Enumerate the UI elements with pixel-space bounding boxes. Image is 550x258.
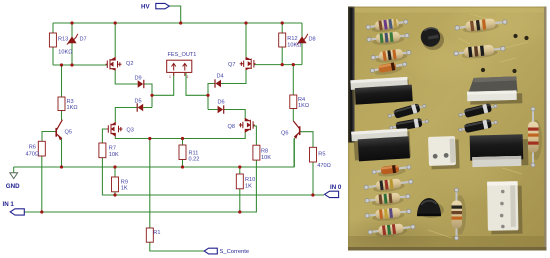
photo black diode 1	[387, 101, 427, 120]
svg-text:470Ω: 470Ω	[317, 163, 331, 169]
svg-text:GND: GND	[6, 183, 20, 190]
svg-text:0.22: 0.22	[189, 157, 200, 163]
transistor Q6	[293, 121, 299, 138]
board scratches	[428, 14, 528, 238]
photo resistor mid2	[453, 43, 505, 60]
svg-text:R9: R9	[121, 179, 128, 185]
photo TO220 2	[351, 128, 411, 161]
net flag IN 1	[3, 201, 25, 215]
wire left gate rail	[53, 64, 107, 66]
wire R6 to IN1	[41, 156, 43, 212]
wire D6 to Q8	[208, 110, 245, 119]
wire R1 column	[149, 139, 151, 229]
junction R3 top	[60, 63, 63, 66]
wire GND rail	[14, 139, 294, 168]
junction R6 bottom IN1	[40, 210, 43, 213]
wire R12 branch	[281, 23, 283, 65]
junction D7 anode	[70, 63, 73, 66]
resistor R13	[49, 33, 56, 47]
svg-text:Q6: Q6	[281, 130, 288, 136]
svg-text:R1: R1	[153, 230, 160, 236]
svg-text:FES_OUT1: FES_OUT1	[168, 52, 197, 58]
photo black box right 1	[467, 76, 523, 104]
photo black diode 2	[389, 117, 429, 132]
wire D5 to Q3	[115, 108, 137, 123]
svg-text:10KΩ: 10KΩ	[58, 50, 72, 56]
junction R12 bottom	[281, 63, 284, 66]
junction HV bus	[179, 21, 182, 24]
photo resistor row7	[367, 222, 415, 239]
wire Q7 source to D4	[221, 70, 246, 84]
svg-text:Q7: Q7	[228, 62, 235, 68]
photo white relay mid	[428, 136, 460, 170]
photo white connector bottom	[487, 181, 522, 234]
photo glass diode 1	[370, 60, 408, 77]
wire GND stub	[13, 167, 15, 173]
svg-text:IN 1: IN 1	[3, 201, 15, 208]
junction D9-D5 node	[150, 94, 153, 97]
resistor R8	[253, 145, 260, 160]
wire Q2 source to D9	[115, 71, 137, 85]
photo TO92 disc 2	[417, 198, 444, 218]
wire Q6 emitter	[293, 138, 295, 167]
svg-text:Q3: Q3	[126, 128, 133, 134]
wire D9 to center node	[144, 84, 152, 108]
svg-text:R8: R8	[261, 148, 268, 154]
svg-text:R10: R10	[245, 177, 255, 183]
photo black box right 2	[470, 134, 529, 167]
resistor R1	[146, 228, 153, 242]
svg-text:D7: D7	[80, 37, 87, 43]
photo black diode 3	[458, 101, 498, 119]
photo black diode 4	[458, 118, 498, 135]
resistor R11	[179, 145, 186, 160]
photo edge shading	[348, 7, 547, 251]
resistor R10	[236, 174, 243, 189]
junction R10 top GND	[238, 165, 241, 168]
diode D4	[216, 80, 222, 87]
svg-text:Q8: Q8	[228, 124, 235, 130]
photo resistor row3	[370, 47, 411, 64]
wire left branch R13	[52, 23, 54, 65]
svg-text:HV: HV	[141, 4, 150, 11]
svg-text:10K: 10K	[109, 152, 119, 158]
net flag S_Corrente	[204, 248, 249, 255]
photo board holes	[481, 34, 529, 73]
junction R5 bottom IN0	[311, 193, 314, 196]
junction R9 bottom IN0	[113, 193, 116, 196]
wire HV flag drop	[169, 6, 181, 23]
resistor R6	[38, 141, 45, 156]
svg-text:S_Corrente: S_Corrente	[220, 249, 250, 255]
heatsink edge strip left	[348, 7, 355, 143]
resistor R4	[290, 95, 297, 109]
transistor Q8	[239, 118, 255, 133]
zener diode D8	[297, 36, 306, 43]
junction R9 top GND	[113, 165, 116, 168]
svg-text:R13: R13	[58, 37, 68, 43]
wire FES pin1	[152, 73, 174, 95]
wire D8 branch	[301, 23, 303, 65]
wire Q5 base to R6	[42, 132, 56, 142]
wire right gate rail	[254, 64, 303, 66]
junction D4-D6 node	[206, 94, 209, 97]
photo resistor row4	[363, 177, 413, 195]
photo TO92 disc 1	[421, 27, 444, 50]
wire R9 leads	[114, 167, 116, 195]
junction D7 top	[70, 21, 73, 24]
wire Q2 drain	[114, 23, 116, 57]
wire R5 bottom	[312, 162, 314, 195]
photo resistor row5	[365, 191, 411, 207]
photo resistor mid1	[454, 17, 507, 35]
svg-text:R12: R12	[287, 36, 297, 42]
junction Q7 drain bus	[244, 21, 247, 24]
photo resistor row2	[367, 31, 410, 47]
svg-text:2: 2	[187, 75, 189, 79]
photo TO220 1	[350, 77, 412, 105]
photo vertical resistor bottom	[452, 188, 467, 240]
diode D5	[138, 104, 144, 111]
photo glass diode 2	[372, 163, 412, 179]
junction R1 tap	[148, 137, 151, 140]
resistor R3	[58, 97, 65, 111]
wire IN1 line	[24, 160, 256, 212]
wire R4 Q6 column	[292, 65, 294, 121]
svg-text:IN 0: IN 0	[330, 184, 342, 191]
diode D9	[138, 80, 144, 87]
ground symbol GND	[10, 173, 18, 179]
wire R8 top to Q8 gate	[253, 126, 256, 145]
svg-text:D8: D8	[309, 37, 316, 43]
wire source rail	[115, 133, 245, 139]
photo resistor row1	[365, 17, 408, 35]
net flag HV	[141, 3, 169, 10]
svg-text:1K: 1K	[121, 186, 128, 192]
junction R11 bottom GND	[181, 165, 184, 168]
junction R11 top	[181, 137, 184, 140]
junction R4 top	[292, 63, 295, 66]
photo resistor row6	[365, 206, 412, 223]
wire Q5 emitter	[61, 138, 63, 167]
resistor R7	[99, 143, 106, 158]
junction R12 top	[281, 21, 284, 24]
resistor R12	[279, 33, 286, 47]
svg-text:R6: R6	[29, 144, 36, 150]
wire HV top bus	[53, 22, 302, 24]
board tone patches	[440, 0, 550, 51]
wire Q6 base to R5	[300, 132, 313, 148]
wire D5 right lead	[143, 107, 152, 109]
junction Q5 emitter GND	[60, 165, 63, 168]
transistor Q3	[107, 122, 123, 137]
svg-text:1KΩ: 1KΩ	[67, 105, 78, 111]
svg-text:10K: 10K	[261, 155, 271, 161]
photo vertical resistor right	[528, 107, 542, 167]
diode D6	[218, 106, 224, 113]
wire R11 leads	[182, 139, 184, 168]
junction R10 bottom IN1	[238, 210, 241, 213]
svg-text:1: 1	[169, 75, 171, 79]
wire R1 to S flag	[150, 242, 206, 251]
optocoupler U1 FES_OUT1	[167, 60, 192, 79]
wire D4 to center node right	[208, 84, 215, 110]
wire Q7 drain	[245, 23, 247, 57]
wire FES pin2	[186, 73, 208, 95]
wire Q3 gate to R7	[102, 129, 106, 143]
svg-text:Q5: Q5	[65, 130, 72, 136]
wire R10 leads	[239, 167, 241, 212]
svg-text:10KΩ: 10KΩ	[287, 43, 301, 49]
svg-text:1KΩ: 1KΩ	[298, 103, 309, 109]
svg-text:470Ω: 470Ω	[26, 151, 40, 157]
svg-text:R5: R5	[318, 151, 325, 157]
junction Q2 drain bus	[114, 21, 117, 24]
svg-text:D4: D4	[217, 73, 224, 79]
wire R3 Q5 column	[61, 65, 63, 120]
svg-text:R11: R11	[189, 150, 199, 156]
svg-text:D9: D9	[135, 75, 142, 81]
wire R7 to IN0 rail	[102, 158, 324, 195]
wire D7 branch	[71, 23, 73, 65]
transistor Q5	[56, 120, 62, 140]
svg-text:Q2: Q2	[126, 61, 133, 67]
net flag IN 0	[325, 184, 342, 198]
svg-text:1K: 1K	[245, 184, 252, 190]
svg-text:R7: R7	[109, 145, 116, 151]
transistor Q2	[106, 57, 122, 71]
zener diode D7	[67, 36, 76, 43]
svg-text:D6: D6	[218, 99, 225, 105]
resistor R5	[310, 147, 317, 162]
resistor R9	[112, 177, 119, 192]
transistor Q7	[240, 57, 256, 70]
svg-text:D5: D5	[135, 98, 142, 104]
